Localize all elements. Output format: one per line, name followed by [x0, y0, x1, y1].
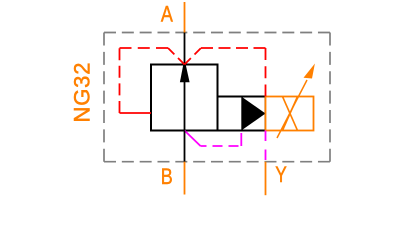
proportional solenoid box — [266, 97, 314, 131]
drain line Y dashed — [265, 131, 267, 162]
drain line diagonal — [185, 131, 201, 147]
flow arrowhead — [180, 65, 190, 82]
pilot line left riser — [119, 48, 121, 113]
solenoid cross stroke 1 — [283, 97, 298, 131]
pilot line top left run — [120, 47, 169, 49]
pilot line notch down — [168, 48, 185, 65]
wire B from valve — [184, 131, 186, 162]
valve body square — [151, 65, 218, 131]
enclosure boundary bottom — [104, 161, 330, 163]
svg-text:Y: Y — [275, 162, 287, 187]
port line Y external — [265, 162, 267, 196]
pilot line notch up — [185, 48, 202, 65]
flow path line in valve — [184, 65, 186, 131]
drain line riser — [240, 133, 242, 146]
pilot line right drop — [265, 48, 267, 97]
adjustment arrowhead — [304, 64, 315, 79]
port line A external — [184, 2, 186, 33]
svg-text:A: A — [161, 2, 173, 27]
svg-text:NG32: NG32 — [70, 63, 95, 123]
port line B external — [184, 162, 186, 195]
check valve poppet triangle — [241, 97, 265, 131]
enclosure boundary right — [329, 33, 331, 162]
pilot line top right run — [201, 47, 266, 49]
solenoid cross stroke 2 — [283, 97, 298, 131]
drain line horizontal run — [201, 145, 242, 147]
wire A to valve — [184, 33, 186, 65]
adjustment arrow shaft — [277, 80, 307, 138]
enclosure boundary top — [104, 32, 330, 34]
enclosure boundary left — [103, 33, 105, 162]
check valve stage box — [218, 97, 266, 131]
svg-text:B: B — [161, 164, 173, 189]
pilot line segment from valve left — [120, 112, 152, 114]
